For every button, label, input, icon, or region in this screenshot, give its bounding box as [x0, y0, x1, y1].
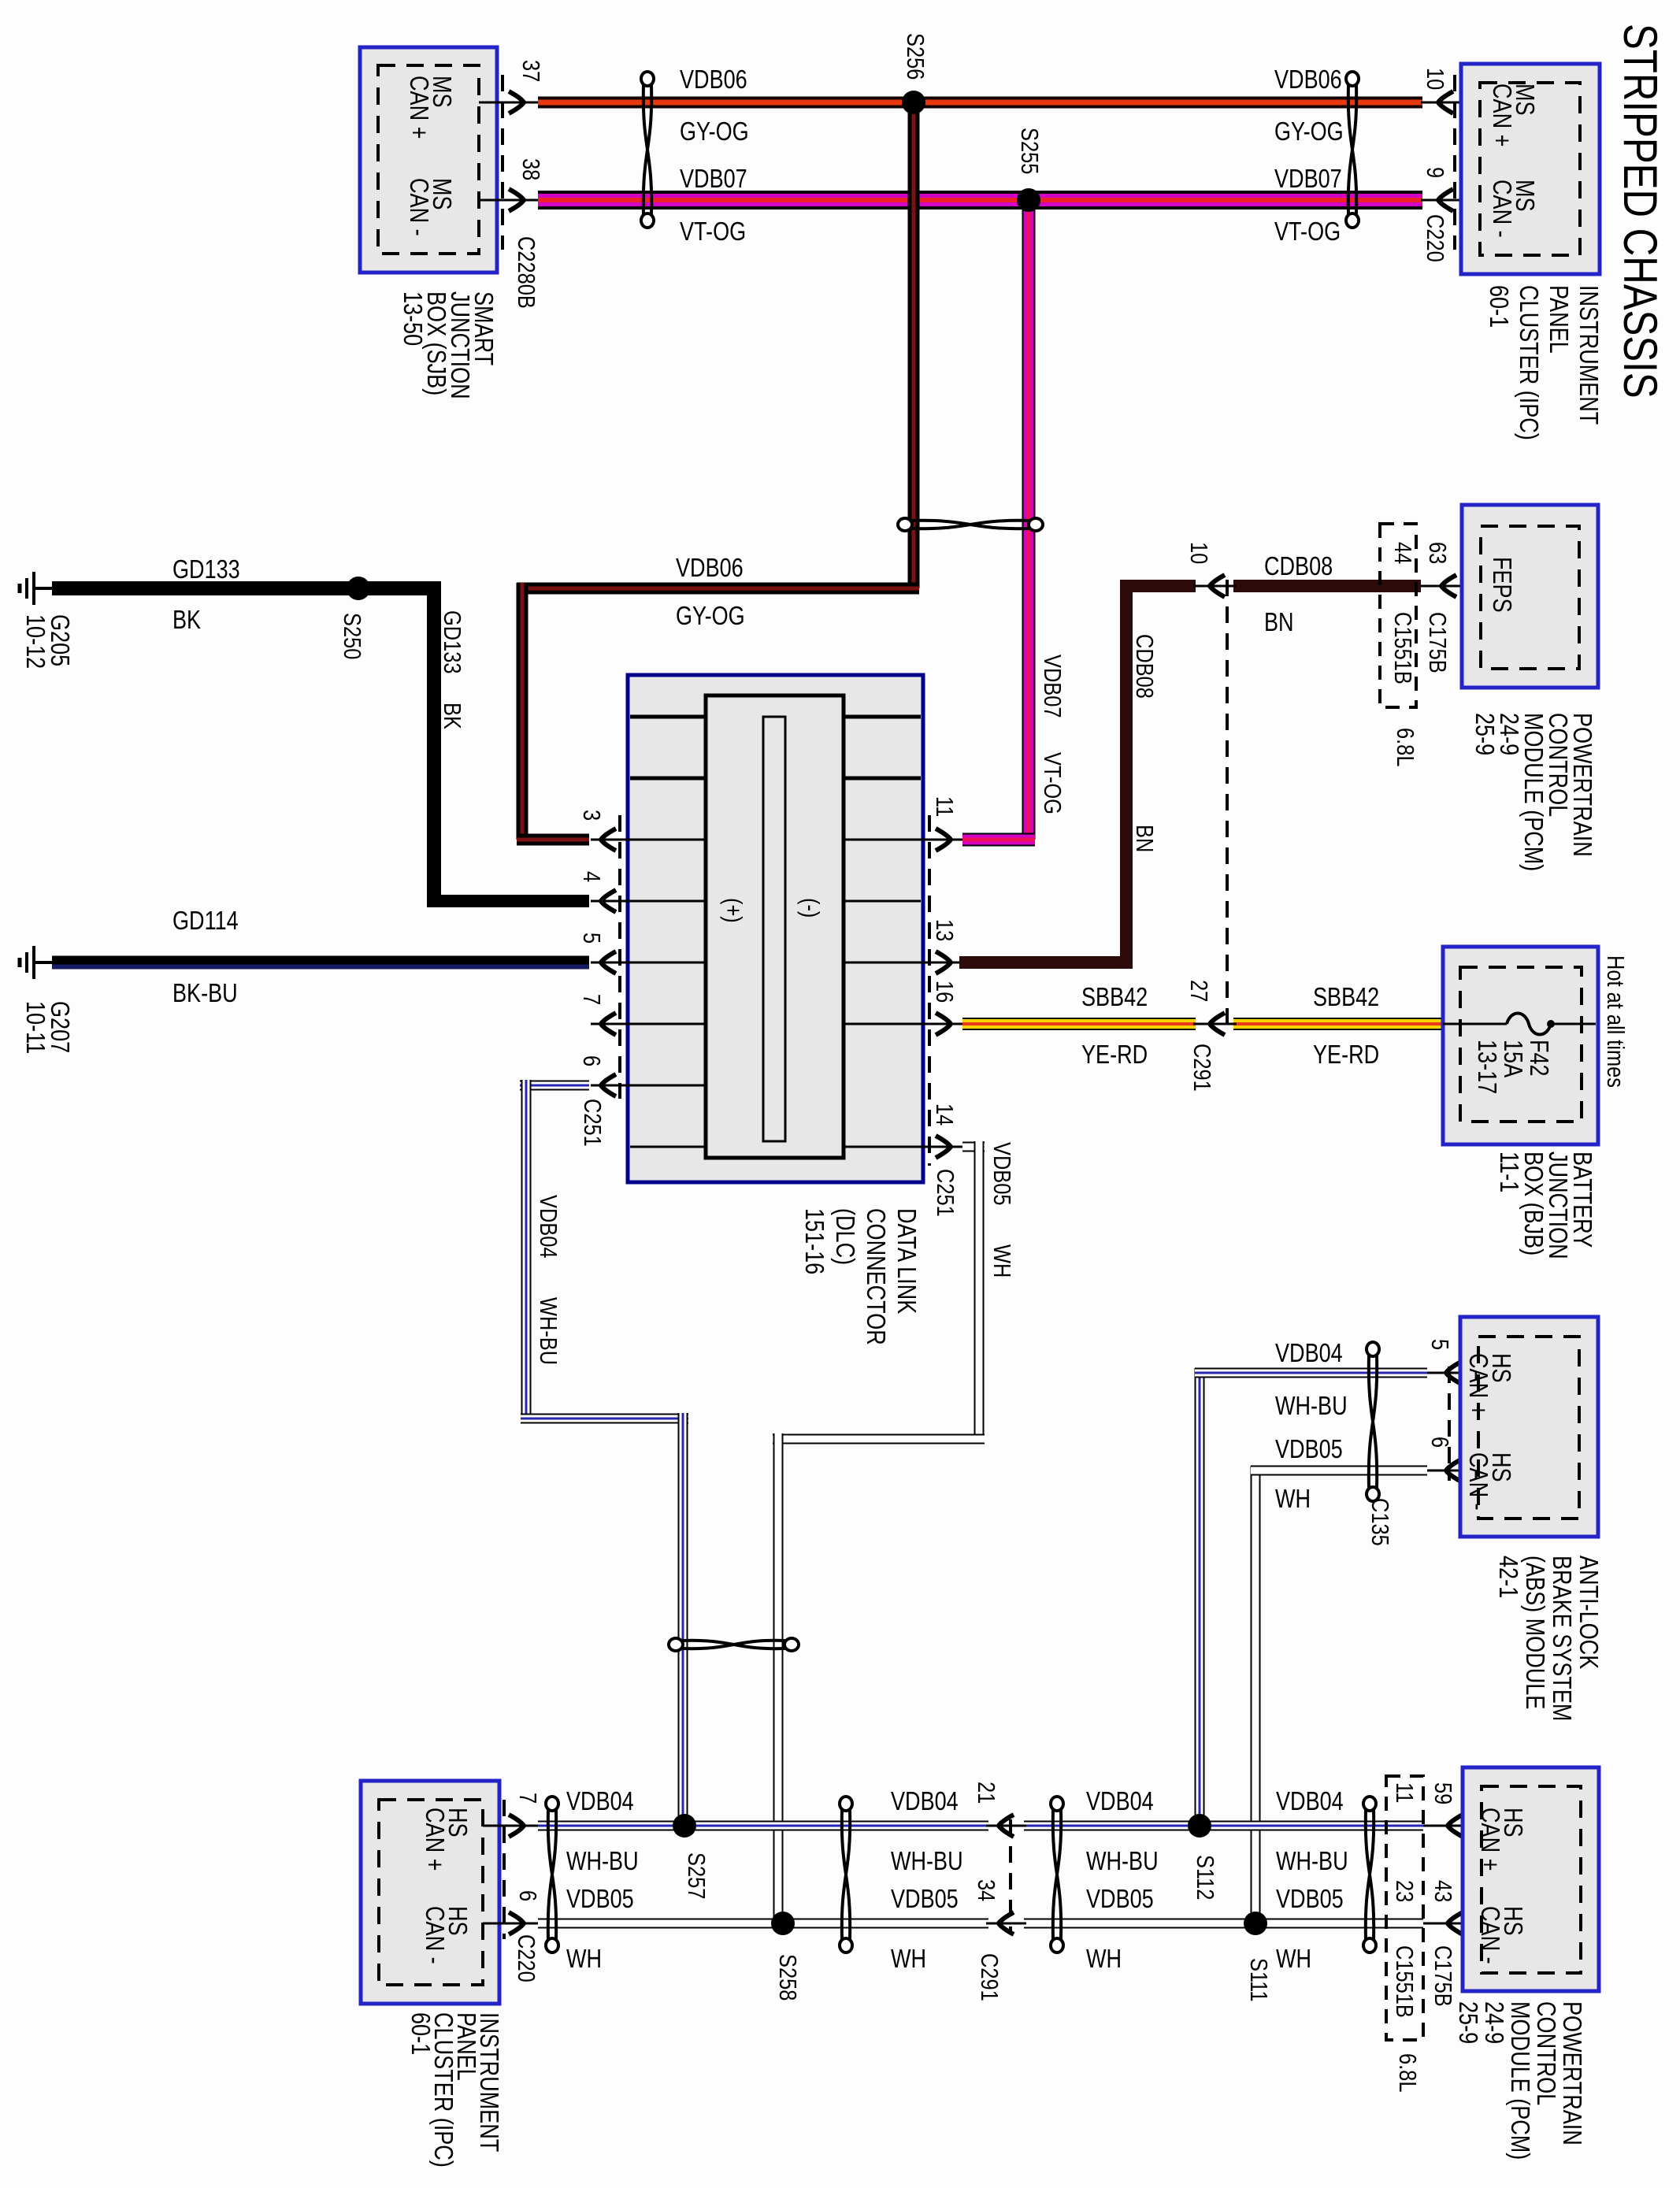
- twisted pair bottom 4: [1363, 1797, 1376, 1953]
- ABS pin 6 arrow: [1446, 1459, 1461, 1482]
- wire VDB07 vertical from S255: [1022, 200, 1036, 840]
- splice S258: [771, 1912, 795, 1935]
- svg-text:FEPS: FEPS: [1487, 557, 1515, 613]
- fuse F42 line right: [1551, 1023, 1596, 1025]
- BJB inner dashed box: [1460, 967, 1582, 1122]
- DLC right comb line 6: [844, 1023, 921, 1025]
- svg-text:34: 34: [972, 1879, 999, 1901]
- svg-text:VDB04: VDB04: [1276, 1788, 1344, 1816]
- wire VDB04 bus bottom left: [538, 1821, 988, 1831]
- svg-text:YE-RD: YE-RD: [1313, 1041, 1379, 1070]
- IPC pin 9 arrow: [1438, 189, 1453, 211]
- wire VDB05 bus bottom left: [538, 1919, 988, 1929]
- smart junction box SJB: [360, 47, 497, 273]
- C1551B dashed connector box bottom: [1386, 1776, 1423, 2040]
- wire VDB06 mid horizontal: [517, 583, 919, 595]
- IPC bottom connector dashed line: [503, 1800, 506, 1939]
- DLC left comb line 2: [630, 777, 706, 781]
- fuse F42: [1507, 1014, 1551, 1035]
- svg-text:YE-RD: YE-RD: [1081, 1041, 1148, 1070]
- PCM bottom pin 59 arrow: [1448, 1815, 1463, 1837]
- twisted pair ABS: [1367, 1342, 1379, 1501]
- ground G207: [20, 946, 52, 979]
- svg-text:BN: BN: [1264, 609, 1294, 637]
- DLC pin 16 arrow: [936, 1013, 951, 1035]
- svg-text:VDB05: VDB05: [566, 1886, 634, 1914]
- DLC pin 7 line: [591, 1023, 630, 1025]
- svg-text:C2280B: C2280B: [512, 236, 540, 309]
- twisted pair bottom 2: [840, 1797, 852, 1953]
- DLC right comb line 1: [844, 715, 921, 719]
- wire CDB08 vertical: [1120, 580, 1133, 969]
- wire VDB05 to ABS horizontal: [1251, 1466, 1427, 1476]
- DLC left comb line 7: [630, 1085, 706, 1087]
- svg-text:37: 37: [517, 60, 544, 82]
- splice S250: [347, 577, 370, 600]
- IPC pin 9 line: [1421, 199, 1480, 202]
- svg-text:WH: WH: [1275, 1485, 1311, 1514]
- svg-text:VT-OG: VT-OG: [1038, 752, 1066, 814]
- svg-text:SBB42: SBB42: [1313, 984, 1379, 1012]
- FEPS pin 63 arrow: [1441, 575, 1456, 597]
- svg-text:16: 16: [930, 981, 958, 1003]
- svg-text:23: 23: [1390, 1880, 1418, 1902]
- svg-text:6.8L: 6.8L: [1391, 728, 1419, 766]
- ABS connector dashed line C135: [1448, 1367, 1451, 1481]
- DLC left comb line 4: [630, 900, 706, 903]
- svg-text:S111: S111: [1244, 1958, 1272, 2002]
- wire VDB05 vertical to S258: [773, 1433, 784, 1923]
- svg-text:5: 5: [577, 933, 605, 944]
- svg-text:BK: BK: [172, 606, 201, 635]
- DLC pin 13 arrow: [936, 951, 951, 973]
- svg-text:VDB05: VDB05: [1275, 1436, 1343, 1464]
- DLC pin 11 arrow: [936, 829, 951, 851]
- IPC bottom inner dashed connector: [379, 1800, 483, 1985]
- DLC pin 16 line: [921, 1023, 962, 1025]
- svg-text:WH-BU: WH-BU: [1275, 1393, 1348, 1421]
- SJB inner dashed connector: [378, 65, 479, 254]
- splice S111: [1244, 1912, 1267, 1935]
- wire VDB05 to ABS vertical: [1251, 1466, 1261, 1923]
- svg-text:9: 9: [1421, 167, 1448, 178]
- svg-text:VDB07: VDB07: [680, 165, 747, 194]
- splice S112: [1188, 1814, 1211, 1838]
- wire VDB06 vertical to pin 3: [517, 583, 528, 840]
- C291 dashed line: [1226, 580, 1229, 1028]
- svg-text:14: 14: [930, 1103, 958, 1126]
- svg-text:WH-BU: WH-BU: [566, 1848, 639, 1876]
- svg-text:VDB05: VDB05: [1276, 1886, 1344, 1914]
- svg-text:WH: WH: [566, 1945, 602, 1974]
- svg-text:VT-OG: VT-OG: [1274, 218, 1341, 247]
- DLC left comb line 8: [630, 1146, 706, 1148]
- PCM bottom pin 59 line: [1423, 1825, 1482, 1827]
- svg-text:43: 43: [1429, 1880, 1456, 1902]
- IPC bottom box: [361, 1781, 499, 2004]
- svg-text:C1551B: C1551B: [1389, 612, 1416, 684]
- DLC right dashed connector line: [928, 815, 931, 1166]
- FEPS inner dashed connector: [1481, 526, 1579, 669]
- svg-text:S112: S112: [1191, 1855, 1218, 1900]
- svg-text:C251: C251: [931, 1169, 959, 1217]
- svg-text:WH-BU: WH-BU: [1276, 1848, 1348, 1876]
- svg-text:VDB04: VDB04: [1086, 1788, 1154, 1816]
- twisted pair branch: [669, 1638, 799, 1651]
- svg-text:GY-OG: GY-OG: [676, 603, 745, 631]
- svg-text:VDB05: VDB05: [1086, 1886, 1154, 1914]
- IPC bottom pin 6 line: [483, 1923, 540, 1925]
- splice S257: [673, 1814, 696, 1838]
- svg-text:59: 59: [1429, 1782, 1456, 1804]
- svg-text:S250: S250: [338, 613, 365, 659]
- svg-text:WH-BU: WH-BU: [1086, 1848, 1159, 1876]
- twisted pair left: [641, 72, 654, 228]
- wire GD133 vertical: [427, 581, 441, 901]
- wire VDB05 vertical right: [974, 1141, 985, 1439]
- wire CDB08 to pin 13: [959, 956, 1133, 969]
- DLC central body: [706, 695, 844, 1158]
- twisted pair right: [1346, 72, 1359, 228]
- DLC slot: [763, 717, 785, 1141]
- svg-text:STRIPPED CHASSIS: STRIPPED CHASSIS: [1614, 24, 1667, 399]
- svg-text:WH: WH: [1276, 1945, 1311, 1974]
- svg-text:GY-OG: GY-OG: [680, 118, 749, 146]
- DLC pin 14 arrow: [936, 1136, 951, 1158]
- svg-text:C175B: C175B: [1429, 1945, 1456, 2007]
- svg-text:10: 10: [1421, 68, 1448, 90]
- IPC pin 10 arrow: [1438, 91, 1453, 113]
- svg-text:WH: WH: [988, 1244, 1015, 1278]
- ABS pin 5 line: [1427, 1372, 1478, 1374]
- svg-text:G20710-11: G20710-11: [20, 1001, 73, 1054]
- DLC left dashed connector line: [618, 815, 621, 1099]
- DLC right comb line 7: [844, 1146, 921, 1148]
- wire CDB08 left segment: [1120, 580, 1196, 592]
- C291 bottom arrow pin34: [999, 1912, 1014, 1934]
- SJB pin 38 line: [479, 199, 540, 202]
- DLC pin 13 line: [921, 962, 962, 964]
- svg-text:C291: C291: [1188, 1044, 1215, 1092]
- DLC left comb line 5: [630, 962, 706, 964]
- IPC bottom pin 6 arrow: [509, 1912, 524, 1934]
- powertrain control module box top: [1462, 505, 1598, 688]
- IPC bottom pin 7 line: [483, 1825, 540, 1827]
- DLC pin 11 line: [921, 839, 962, 841]
- svg-text:VDB04: VDB04: [1275, 1340, 1343, 1368]
- svg-text:WH-BU: WH-BU: [891, 1848, 963, 1876]
- svg-text:S255: S255: [1015, 128, 1043, 174]
- wire CDB08 right segment: [1233, 580, 1421, 592]
- DLC right comb line 2: [844, 777, 921, 781]
- svg-text:C135: C135: [1366, 1498, 1393, 1546]
- svg-text:6: 6: [1426, 1437, 1453, 1448]
- IPC pin 10 line: [1421, 102, 1480, 104]
- wire VDB04 to ABS vertical: [1195, 1368, 1205, 1826]
- svg-text:BK: BK: [438, 703, 465, 729]
- svg-text:CDB08: CDB08: [1264, 553, 1333, 581]
- wire VDB04 to ABS horizontal: [1195, 1368, 1427, 1378]
- twisted pair bottom 1: [546, 1797, 558, 1953]
- wire GD114: [52, 956, 589, 970]
- PCM bottom inner dashed connector: [1482, 1786, 1581, 1973]
- DLC pin 6 line: [591, 1085, 630, 1087]
- svg-text:GD114: GD114: [172, 907, 239, 936]
- DLC pin 3 line: [591, 839, 630, 841]
- C291 pin 10 line: [1193, 585, 1237, 588]
- splice S255: [1017, 188, 1040, 212]
- svg-text:C291: C291: [975, 1953, 1003, 2001]
- SJB pin 38 arrow: [509, 189, 524, 211]
- svg-text:CDB08: CDB08: [1130, 634, 1158, 699]
- svg-text:C175B: C175B: [1423, 612, 1451, 673]
- wire VDB07 to pin 11: [962, 833, 1035, 847]
- svg-text:10: 10: [1185, 542, 1212, 564]
- C291 bottom dashed line: [1009, 1819, 1012, 1934]
- svg-text:(-): (-): [796, 898, 824, 918]
- C291 pin 27 line: [1193, 1023, 1237, 1025]
- svg-text:6.8L: 6.8L: [1393, 2053, 1421, 2092]
- C291 pin 34 line: [986, 1923, 1026, 1925]
- svg-text:VDB06: VDB06: [676, 554, 744, 583]
- wire VDB06 bus: [538, 97, 1422, 109]
- ABS pin 5 arrow: [1446, 1362, 1461, 1384]
- svg-text:VDB06: VDB06: [680, 66, 747, 95]
- svg-text:C1551B: C1551B: [1390, 1945, 1418, 2018]
- svg-text:BN: BN: [1130, 825, 1158, 852]
- C291 pin 21 line: [986, 1825, 1026, 1827]
- svg-text:GY-OG: GY-OG: [1274, 118, 1344, 146]
- DLC pin 5 line: [591, 962, 630, 964]
- svg-text:BK-BU: BK-BU: [172, 980, 238, 1008]
- IPC connector dashed line C220: [1453, 75, 1456, 250]
- svg-text:7: 7: [577, 994, 605, 1005]
- DLC pin 14 line: [921, 1146, 962, 1148]
- DLC left comb line 1: [630, 715, 706, 719]
- FEPS pin 63 line: [1421, 585, 1481, 588]
- svg-text:11: 11: [930, 796, 958, 817]
- fuse F42 line left: [1443, 1023, 1507, 1025]
- svg-text:S257: S257: [682, 1852, 710, 1899]
- svg-text:13: 13: [930, 919, 958, 941]
- wire VDB05 bus bottom right: [1024, 1919, 1423, 1929]
- DLC pin 6 arrow: [601, 1074, 616, 1096]
- svg-text:3: 3: [577, 810, 605, 821]
- wire VDB04 from pin 6 horizontal: [520, 1081, 589, 1091]
- svg-text:GD133: GD133: [438, 610, 465, 673]
- svg-text:SBB42: SBB42: [1081, 984, 1148, 1012]
- data link connector box: [628, 675, 923, 1182]
- IPC inner dashed connector: [1480, 83, 1580, 255]
- wire VDB05 jog horizontal: [773, 1434, 985, 1444]
- PCM bottom pin 43 line: [1423, 1923, 1482, 1925]
- svg-text:WH-BU: WH-BU: [534, 1297, 562, 1365]
- svg-text:Hot at all times: Hot at all times: [1601, 955, 1629, 1088]
- DLC right comb line 3: [844, 839, 921, 841]
- wire VDB06 to pin 3: [517, 834, 589, 846]
- SJB pin 37 arrow: [509, 91, 524, 113]
- svg-text:S258: S258: [773, 1954, 801, 2001]
- C291 connector arrow pin10: [1210, 575, 1225, 597]
- ground G205: [20, 572, 52, 605]
- instrument panel cluster box: [1461, 64, 1600, 274]
- C291 connector arrow pin27: [1210, 1013, 1225, 1035]
- svg-text:VDB06: VDB06: [1274, 66, 1342, 95]
- svg-text:VDB05: VDB05: [891, 1886, 959, 1914]
- svg-text:38: 38: [517, 158, 544, 180]
- C1551B dashed connector box top: [1380, 524, 1416, 707]
- wire VDB04 bus bottom right: [1024, 1821, 1423, 1831]
- splice S256: [902, 91, 925, 114]
- svg-text:21: 21: [972, 1782, 999, 1804]
- DLC pin 4 line: [591, 900, 630, 903]
- DLC pin 7 arrow: [601, 1013, 616, 1035]
- svg-text:4: 4: [577, 871, 605, 882]
- wire GD133: [52, 581, 441, 595]
- svg-text:63: 63: [1423, 542, 1451, 564]
- anti-lock brake system module box: [1460, 1317, 1598, 1537]
- wire SBB42 left segment: [962, 1018, 1196, 1030]
- wire VDB05 from pin 14: [962, 1142, 985, 1152]
- wire VDB04 vertical left: [521, 1080, 532, 1418]
- SJB connector dashed line C2280B: [501, 75, 504, 250]
- svg-text:VDB07: VDB07: [1274, 165, 1342, 194]
- svg-text:5: 5: [1426, 1339, 1453, 1350]
- svg-text:6: 6: [577, 1055, 605, 1066]
- svg-text:S256: S256: [901, 33, 929, 80]
- DLC pin 4 arrow: [601, 890, 616, 912]
- wire VDB04 jog horizontal: [521, 1414, 688, 1424]
- svg-text:VDB04: VDB04: [534, 1195, 562, 1258]
- battery junction box BJB: [1443, 947, 1598, 1144]
- svg-text:VDB04: VDB04: [891, 1788, 959, 1816]
- svg-text:GD133: GD133: [172, 556, 240, 584]
- wire VDB06 vertical from S256: [908, 102, 920, 588]
- svg-text:C220: C220: [512, 1934, 540, 1982]
- DLC pin 3 arrow: [601, 829, 616, 851]
- IPC bottom pin 7 arrow: [509, 1815, 524, 1837]
- svg-text:WH: WH: [1086, 1945, 1122, 1974]
- PCM bottom pin 43 arrow: [1448, 1912, 1463, 1934]
- wire GD133 to pin 4: [427, 895, 589, 907]
- powertrain control module box bottom: [1463, 1767, 1599, 1991]
- SJB pin 37 line: [479, 102, 540, 104]
- DLC right comb line 5: [844, 962, 921, 964]
- svg-text:11: 11: [1390, 1782, 1418, 1803]
- svg-text:6: 6: [514, 1890, 541, 1901]
- svg-text:VDB05: VDB05: [988, 1142, 1015, 1205]
- svg-text:VDB07: VDB07: [1038, 655, 1066, 718]
- svg-text:7: 7: [514, 1793, 541, 1804]
- wire VDB07 bus: [538, 191, 1422, 210]
- wire VDB04 vertical to S257: [678, 1413, 688, 1826]
- svg-text:C251: C251: [578, 1099, 606, 1147]
- ABS pin 6 line: [1427, 1470, 1478, 1472]
- DLC left comb line 6: [630, 1023, 706, 1025]
- DLC right comb line 4: [844, 900, 921, 903]
- svg-text:44: 44: [1389, 542, 1416, 564]
- svg-text:VT-OG: VT-OG: [680, 218, 746, 247]
- svg-text:VDB04: VDB04: [566, 1788, 634, 1816]
- twisted pair bottom 3: [1051, 1797, 1063, 1953]
- wire SBB42 right segment: [1233, 1018, 1443, 1030]
- C291 bottom arrow pin21: [999, 1815, 1014, 1837]
- svg-text:C220: C220: [1421, 214, 1448, 262]
- svg-text:WH: WH: [891, 1945, 926, 1974]
- twisted pair mid: [898, 518, 1043, 531]
- svg-text:G20510-12: G20510-12: [20, 614, 73, 669]
- DLC left comb line 3: [630, 839, 706, 841]
- DLC pin 5 arrow: [601, 951, 616, 973]
- svg-text:(+): (+): [719, 898, 747, 923]
- svg-text:27: 27: [1185, 980, 1212, 1002]
- ABS inner dashed connector: [1478, 1337, 1579, 1519]
